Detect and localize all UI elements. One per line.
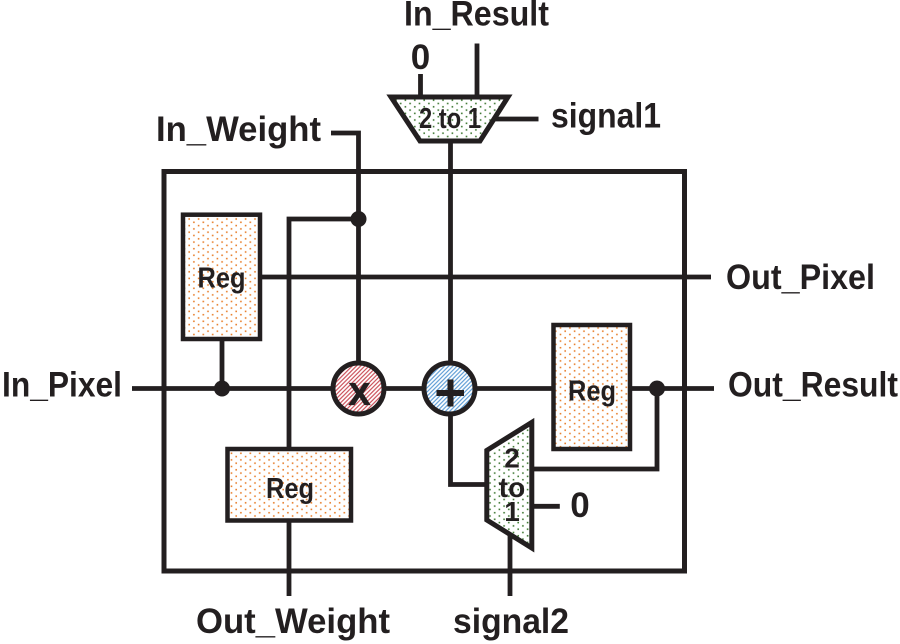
adder plus sign bbox=[437, 380, 465, 407]
wire adder down to mux M2 output bbox=[451, 412, 488, 485]
junction on In_Weight wire bbox=[351, 211, 367, 227]
wire signal1 to mux M1 select bbox=[493, 117, 539, 122]
wire Reg2 down to Out_Weight bbox=[287, 520, 292, 596]
mux M2 2-to-1 trapezoid bbox=[487, 422, 532, 548]
wire junction to weight Reg bbox=[289, 219, 359, 449]
svg-text:2 to 1: 2 to 1 bbox=[419, 103, 481, 135]
register Reg2 weight reg bottom bbox=[228, 449, 352, 521]
wire In_Result into mux M1 bbox=[475, 44, 480, 100]
adder circle bbox=[424, 363, 475, 414]
wire In_Pixel bbox=[132, 386, 335, 391]
wire In_Weight right then down to multiplier bbox=[331, 133, 359, 365]
svg-text:1: 1 bbox=[504, 496, 520, 527]
wire mux M1 output to adder bbox=[448, 141, 453, 365]
wire multiplier to adder bbox=[384, 386, 424, 391]
mux M1 2-to-1 trapezoid bbox=[391, 97, 508, 141]
svg-text:0: 0 bbox=[570, 486, 589, 525]
svg-text:Reg: Reg bbox=[198, 263, 246, 295]
svg-text:In_Weight: In_Weight bbox=[156, 110, 321, 149]
wire adder to Reg3 bbox=[475, 386, 556, 391]
svg-text:In_Result: In_Result bbox=[404, 0, 549, 34]
svg-text:Reg: Reg bbox=[568, 376, 616, 408]
wire signal2 to mux M2 select bbox=[508, 534, 513, 596]
svg-text:signal2: signal2 bbox=[453, 602, 569, 641]
svg-text:Out_Weight: Out_Weight bbox=[196, 602, 390, 641]
wire feedback junction to mux M2 bbox=[531, 389, 657, 470]
PE boundary box bbox=[164, 172, 685, 572]
wire junction up to Reg1 bbox=[220, 339, 225, 389]
svg-text:Out_Pixel: Out_Pixel bbox=[726, 258, 875, 297]
junction Out_Result bbox=[649, 381, 665, 397]
svg-text:0: 0 bbox=[411, 38, 430, 77]
wire Out_Pixel from Reg1 bbox=[262, 275, 711, 280]
wire 0 into mux M1 bbox=[418, 74, 423, 99]
svg-text:X: X bbox=[349, 377, 370, 412]
svg-text:In_Pixel: In_Pixel bbox=[2, 366, 122, 405]
svg-text:Reg: Reg bbox=[266, 473, 314, 505]
svg-text:Out_Result: Out_Result bbox=[728, 366, 898, 405]
wire Out_Result bbox=[630, 386, 714, 391]
multiplier X bbox=[333, 363, 384, 414]
register Reg1 pixel reg top-left bbox=[183, 215, 260, 339]
svg-text:signal1: signal1 bbox=[551, 97, 661, 136]
register Reg3 result reg bbox=[554, 325, 631, 449]
svg-text:2: 2 bbox=[504, 443, 520, 474]
junction In_Pixel bbox=[214, 381, 230, 397]
wire 0 into mux M2 bbox=[532, 504, 560, 509]
